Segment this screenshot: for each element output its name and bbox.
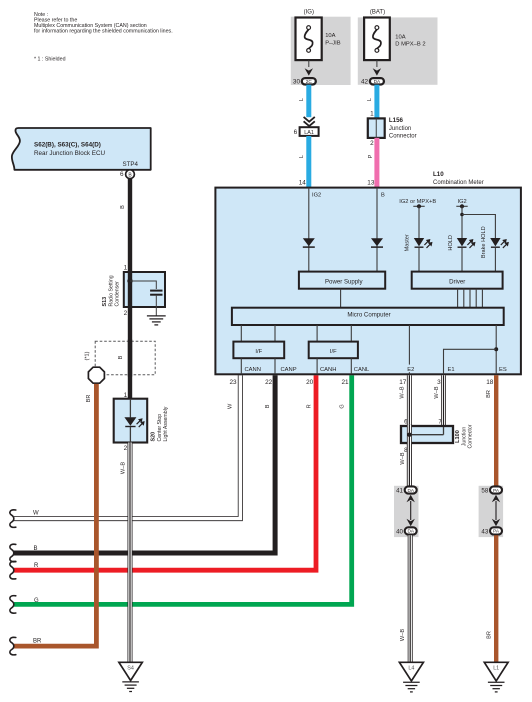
svg-text:HOLD: HOLD xyxy=(448,235,454,251)
wires driver to micro xyxy=(458,289,483,308)
wire BR (ES upper) xyxy=(494,375,498,486)
ground L4 xyxy=(399,662,423,692)
svg-text:R: R xyxy=(34,563,39,569)
pin name labels xyxy=(245,365,507,374)
L100 internal link xyxy=(407,427,443,437)
ground (S13 internal) xyxy=(147,316,166,325)
wire B (CANP) xyxy=(14,375,275,553)
note text xyxy=(34,12,173,35)
svg-text:W–B: W–B xyxy=(120,462,126,474)
svg-text:L4: L4 xyxy=(408,666,414,672)
svg-text:20: 20 xyxy=(306,379,314,386)
svg-text:DA: DA xyxy=(407,529,414,534)
svg-text:6: 6 xyxy=(294,129,298,136)
svg-text:* 1 : Shielded: * 1 : Shielded xyxy=(34,57,66,63)
wire PS to micro xyxy=(340,289,342,308)
svg-text:W: W xyxy=(33,511,39,517)
svg-text:R: R xyxy=(306,404,312,408)
wire BR break symbol xyxy=(10,637,16,655)
svg-text:13: 13 xyxy=(367,180,375,187)
svg-text:Power Supply: Power Supply xyxy=(325,279,364,286)
wire fuse BAT to connector xyxy=(376,60,378,67)
svg-text:Connector: Connector xyxy=(389,134,417,140)
svg-text:2: 2 xyxy=(124,445,128,452)
pin 6 (B) circle xyxy=(120,170,134,179)
wire L cyan (IG) lower segment xyxy=(306,136,311,188)
ECU S62(B),S63(C),S64(D) Rear Junction Block xyxy=(12,128,151,170)
svg-text:STP4: STP4 xyxy=(123,161,139,168)
junction connector L156 xyxy=(368,117,417,139)
svg-text:Brake HOLD: Brake HOLD xyxy=(481,226,487,258)
wire ES internal with branch to E1 xyxy=(444,325,499,374)
I/F block 2 xyxy=(309,342,358,359)
svg-text:CANL: CANL xyxy=(354,367,370,373)
svg-text:I/F: I/F xyxy=(330,349,337,355)
shield dashed box xyxy=(95,341,155,375)
svg-text:S13: S13 xyxy=(102,297,108,307)
splice chevrons xyxy=(304,117,315,126)
svg-text:22: 22 xyxy=(265,379,273,386)
wire B vertical (STP4 to S13 to S20) xyxy=(128,179,132,401)
svg-text:Light Assembly: Light Assembly xyxy=(163,406,169,441)
svg-text:2C: 2C xyxy=(306,79,313,84)
svg-text:42: 42 xyxy=(361,79,369,86)
wire pin13 internal xyxy=(376,188,378,272)
svg-text:for information regarding the: for information regarding the shielded c… xyxy=(34,29,173,35)
svg-text:58: 58 xyxy=(481,487,488,494)
wire W-B vertical (S20 to S4) xyxy=(128,443,133,663)
wire pin14 internal xyxy=(308,188,310,272)
LED HOLD xyxy=(448,235,475,272)
svg-text:D MPX–B 2: D MPX–B 2 xyxy=(395,42,425,48)
wire W-B (to L4) xyxy=(408,535,413,662)
LED inside S20 xyxy=(124,399,144,443)
LED Master xyxy=(405,234,433,271)
svg-text:IG2: IG2 xyxy=(458,199,467,205)
svg-text:2: 2 xyxy=(124,310,128,317)
svg-text:L: L xyxy=(299,98,305,101)
svg-text:43: 43 xyxy=(481,528,488,535)
wire L cyan (IG) upper segment xyxy=(306,85,311,118)
wire W-B (E2 lower to connector) xyxy=(407,443,412,486)
svg-text:10A: 10A xyxy=(325,33,335,39)
svg-text:Micro Computer: Micro Computer xyxy=(347,312,390,319)
svg-text:10A: 10A xyxy=(395,34,405,40)
svg-text:W–B: W–B xyxy=(434,386,440,398)
svg-text:S62(B), S63(C), S64(D): S62(B), S63(C), S64(D) xyxy=(34,141,101,148)
svg-text:CANH: CANH xyxy=(320,367,336,373)
wire G (CANL) xyxy=(14,375,352,604)
svg-text:W–B: W–B xyxy=(400,386,406,398)
svg-text:S20: S20 xyxy=(151,432,157,442)
svg-text:(*1): (*1) xyxy=(85,351,91,360)
svg-text:40: 40 xyxy=(396,528,403,535)
svg-text:BR: BR xyxy=(486,390,492,398)
svg-text:(IG): (IG) xyxy=(304,10,314,16)
svg-text:P: P xyxy=(368,154,374,158)
node IG2 or MPX+B xyxy=(399,199,436,239)
I/F block 1 xyxy=(233,342,284,359)
connector 42 (DA) xyxy=(361,78,384,86)
svg-text:DA: DA xyxy=(407,488,414,493)
svg-text:PA: PA xyxy=(493,488,500,493)
svg-text:L: L xyxy=(367,98,373,101)
combination meter L10 box xyxy=(215,188,521,375)
svg-text:Condenser: Condenser xyxy=(114,281,120,307)
svg-text:21: 21 xyxy=(341,379,349,386)
svg-text:17: 17 xyxy=(399,379,407,386)
svg-text:L100: L100 xyxy=(455,430,461,443)
svg-text:BR: BR xyxy=(487,631,493,639)
svg-text:30: 30 xyxy=(293,79,301,86)
svg-text:BR: BR xyxy=(33,639,42,645)
svg-text:L1: L1 xyxy=(493,666,499,672)
power supply block xyxy=(299,272,385,289)
svg-text:W–B: W–B xyxy=(400,452,406,464)
fuse block (IG) background xyxy=(291,17,351,85)
svg-text:7: 7 xyxy=(438,419,442,426)
svg-text:LA1: LA1 xyxy=(304,130,314,136)
svg-text:3: 3 xyxy=(437,379,441,386)
wire BR (to L1) xyxy=(494,535,498,662)
driver block xyxy=(412,272,503,289)
shield ground octagon xyxy=(88,367,104,383)
diode D (pin14) xyxy=(303,238,315,246)
condenser S13 box xyxy=(102,272,165,307)
svg-text:Connector: Connector xyxy=(468,424,474,448)
svg-text:1: 1 xyxy=(370,111,374,118)
svg-text:18: 18 xyxy=(486,379,494,386)
svg-text:IG2 or MPX+B: IG2 or MPX+B xyxy=(399,199,436,205)
svg-text:Driver: Driver xyxy=(449,279,465,286)
wire L cyan (BAT) xyxy=(374,85,379,119)
wire W-B (E1) xyxy=(441,375,446,426)
wire BR vertical+horizontal (shield drain) xyxy=(14,384,96,646)
node IG2 (right) xyxy=(456,199,467,239)
W-B through L100 xyxy=(407,424,412,445)
svg-text:P–JIB: P–JIB xyxy=(325,40,341,46)
svg-text:B: B xyxy=(265,404,271,408)
svg-text:Master: Master xyxy=(405,234,411,251)
wire P pink xyxy=(374,138,379,188)
junction LA1 pin 6 xyxy=(294,127,319,136)
svg-text:W: W xyxy=(228,403,234,409)
svg-text:CANP: CANP xyxy=(281,367,297,373)
fuse F 10A P-JIB xyxy=(296,18,341,61)
capacitor inside S13 xyxy=(127,278,162,315)
svg-text:S4: S4 xyxy=(127,666,134,672)
ground S4 xyxy=(119,662,142,691)
svg-text:ES: ES xyxy=(499,367,507,373)
svg-text:L: L xyxy=(299,155,305,158)
LED Brake HOLD xyxy=(481,226,509,271)
diode D (pin13) xyxy=(371,238,383,246)
svg-text:CANN: CANN xyxy=(245,367,261,373)
svg-text:6: 6 xyxy=(120,171,124,178)
svg-text:2: 2 xyxy=(370,140,374,147)
ground L1 xyxy=(484,662,508,692)
fuse block (BAT) background xyxy=(358,17,438,84)
wires micro to I/F blocks xyxy=(241,325,351,342)
svg-text:E1: E1 xyxy=(448,367,455,373)
wire W-B (E2 upper) xyxy=(407,375,412,486)
svg-text:41: 41 xyxy=(396,487,403,494)
svg-text:W–B: W–B xyxy=(400,629,406,641)
svg-text:(BAT): (BAT) xyxy=(370,10,385,16)
svg-text:PA: PA xyxy=(493,529,500,534)
svg-text:B: B xyxy=(34,546,38,552)
junction connector L100 xyxy=(401,424,474,448)
wire W (CANN) xyxy=(14,375,240,518)
junction dot and branch to Brake HOLD xyxy=(460,213,495,239)
lamp S20 Center Stop Light Assembly xyxy=(114,399,170,443)
micro computer block xyxy=(232,308,504,325)
svg-text:DA: DA xyxy=(374,79,381,84)
wire fuse IG to connector xyxy=(308,60,310,67)
svg-text:BR: BR xyxy=(86,395,92,403)
svg-text:L156: L156 xyxy=(389,117,404,124)
svg-text:Rear Junction Block ECU: Rear Junction Block ECU xyxy=(34,150,105,157)
svg-text:B: B xyxy=(118,355,124,359)
svg-text:Combination Meter: Combination Meter xyxy=(433,180,484,186)
svg-text:G: G xyxy=(339,404,345,408)
connector 30 (2C) xyxy=(293,78,316,86)
connector 58/43 (PA) block xyxy=(479,486,504,537)
wires I/F to pins xyxy=(241,358,351,374)
pin numbers xyxy=(229,379,493,386)
svg-text:B: B xyxy=(381,193,385,199)
svg-text:23: 23 xyxy=(229,379,237,386)
connector 41/40 (DA) block xyxy=(394,486,419,537)
svg-text:B: B xyxy=(120,205,126,209)
svg-text:G: G xyxy=(34,598,39,604)
svg-text:I/F: I/F xyxy=(255,349,262,355)
fuse 10A D MPX-B 2 xyxy=(364,18,425,61)
wire B over S13 xyxy=(128,272,132,307)
svg-text:IG2: IG2 xyxy=(312,193,321,199)
svg-text:14: 14 xyxy=(299,180,307,187)
wire E2 internal xyxy=(408,325,410,374)
svg-text:1: 1 xyxy=(124,264,128,271)
svg-text:Junction: Junction xyxy=(389,126,411,132)
svg-text:L10: L10 xyxy=(433,171,444,178)
wire R (CANH) xyxy=(14,375,316,570)
svg-text:E2: E2 xyxy=(407,367,414,373)
